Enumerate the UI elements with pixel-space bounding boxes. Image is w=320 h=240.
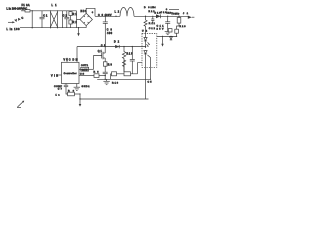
node labels above diode D10 bbox=[144, 7, 167, 14]
svg-text:VIN: VIN bbox=[51, 74, 58, 77]
ground symbol primary bbox=[103, 79, 109, 84]
wire feedback top bbox=[157, 36, 177, 37]
wire opto emitter to rail bbox=[145, 67, 147, 99]
svg-text:R9: R9 bbox=[108, 65, 113, 67]
zener D4 bbox=[170, 37, 173, 40]
node COMP label bbox=[54, 86, 63, 96]
svg-text:COMP: COMP bbox=[54, 86, 63, 88]
node N input label bbox=[7, 28, 21, 31]
capacitor C6 bbox=[130, 46, 135, 74]
resistor R18 bbox=[168, 29, 172, 32]
svg-text:400: 400 bbox=[107, 33, 113, 35]
wire bus after inductor bbox=[134, 16, 160, 17]
node U2 label bbox=[142, 30, 148, 32]
inductor L1 common-mode choke bbox=[50, 4, 58, 28]
fuse F1 bbox=[25, 10, 30, 12]
wire main bus bbox=[95, 15, 120, 17]
svg-text:R13: R13 bbox=[180, 26, 187, 28]
svg-text:L in 100: L in 100 bbox=[7, 28, 21, 31]
svg-text:L2: L2 bbox=[115, 11, 120, 14]
svg-text:J1: J1 bbox=[183, 13, 189, 15]
wire vertical junction bbox=[61, 11, 63, 28]
svg-text:C2: C2 bbox=[63, 16, 68, 18]
node VAC diagonal label bbox=[15, 16, 24, 22]
svg-text:C1: C1 bbox=[43, 15, 48, 17]
svg-text:C11: C11 bbox=[157, 26, 165, 28]
wire COMP pin bbox=[58, 84, 66, 91]
wire vertical before bridge bbox=[76, 11, 78, 28]
svg-text:L1: L1 bbox=[52, 4, 58, 7]
node C11 labels bbox=[157, 26, 165, 31]
ground GND pin controller bbox=[74, 84, 91, 91]
svg-text:R11: R11 bbox=[149, 23, 156, 25]
node VIN label bbox=[51, 74, 62, 77]
node Vout label bbox=[166, 8, 189, 15]
AC input terminal arrow bbox=[8, 21, 15, 23]
MOSFET Q1 bbox=[94, 47, 106, 70]
wire bottom rail bbox=[20, 27, 86, 29]
wire primary ground rail bbox=[97, 79, 150, 80]
diode D2 bbox=[114, 41, 120, 48]
node +400V label bbox=[92, 12, 94, 14]
resistor R9 sense bbox=[103, 62, 112, 72]
svg-text:DM: DM bbox=[73, 60, 78, 62]
node C9 400V label bbox=[98, 14, 112, 17]
output terminal arrow bbox=[188, 16, 195, 19]
wire parallel drop bbox=[151, 16, 154, 23]
capacitor C7 comp bbox=[64, 85, 68, 94]
node C5 label bbox=[101, 45, 106, 47]
svg-text:C9: C9 bbox=[107, 30, 113, 32]
fuse F1 label bbox=[22, 4, 30, 7]
controller U1 bbox=[62, 62, 80, 83]
svg-text:L in 100-240VAC: L in 100-240VAC bbox=[7, 7, 28, 10]
node OUT label box bbox=[81, 65, 89, 71]
ground symbol output bbox=[165, 32, 171, 35]
capacitor C2 bbox=[63, 11, 70, 28]
wire output bbox=[160, 16, 188, 17]
wire OUT pin bbox=[79, 68, 94, 70]
wire feedback mid bbox=[111, 63, 143, 80]
resistor R12 zigzag bbox=[123, 60, 126, 72]
LED opto bbox=[144, 34, 147, 49]
resistor R8 bbox=[68, 90, 80, 95]
resistor R7 bbox=[112, 72, 117, 76]
phototransistor opto bbox=[144, 51, 151, 68]
svg-text:Controller: Controller bbox=[64, 72, 77, 75]
wire comp to gnd rail bbox=[79, 93, 80, 99]
svg-text:Vout+: Vout+ bbox=[171, 12, 180, 15]
wire bridge bottom to rail bbox=[85, 26, 87, 28]
annotation arrow bottom left bbox=[17, 101, 24, 108]
optocoupler U2 dashed box bbox=[142, 34, 157, 68]
svg-text:1N4: 1N4 bbox=[151, 7, 157, 9]
svg-text:C9: C9 bbox=[98, 14, 104, 17]
svg-text:OUT1: OUT1 bbox=[81, 65, 89, 67]
svg-text:GATE: GATE bbox=[82, 68, 88, 71]
wire VCC rail bbox=[77, 46, 146, 62]
svg-text:U2: U2 bbox=[142, 30, 148, 32]
wire snubber drop bbox=[145, 16, 147, 20]
wire sense top bbox=[169, 9, 179, 11]
resistor R15 zigzag bbox=[122, 46, 133, 72]
node L input label bbox=[7, 7, 28, 10]
node R16 label bbox=[112, 83, 119, 85]
resistor R1 bbox=[69, 11, 77, 20]
ground arrow bottom bbox=[79, 99, 82, 107]
svg-text:F1 3A: F1 3A bbox=[22, 4, 30, 7]
resistor R6 bbox=[94, 72, 106, 78]
svg-text:CS: CS bbox=[80, 74, 85, 76]
wire CS pin bbox=[79, 74, 94, 76]
svg-text:R16: R16 bbox=[112, 83, 119, 85]
capacitor CS filter bbox=[103, 72, 108, 79]
wire top rail bbox=[21, 10, 77, 12]
svg-text:D2: D2 bbox=[114, 41, 120, 43]
wire opto collector to rail bbox=[150, 67, 151, 80]
svg-text:C10: C10 bbox=[166, 13, 171, 15]
wire bottom ground rail bbox=[79, 98, 148, 99]
wire to bridge left vertex bbox=[77, 19, 81, 21]
capacitor C1 bbox=[40, 11, 49, 28]
svg-text:GND1: GND1 bbox=[82, 86, 91, 88]
resistor R17 bbox=[175, 29, 179, 36]
wire pin DM stub bbox=[66, 58, 67, 63]
opto light arrows bbox=[146, 42, 150, 46]
node label below opto bbox=[148, 81, 153, 83]
svg-text:R6: R6 bbox=[94, 72, 100, 74]
resistor R13 bbox=[177, 16, 187, 29]
svg-text:Q1: Q1 bbox=[98, 51, 103, 53]
diode D10 bbox=[156, 14, 161, 18]
svg-text:C12: C12 bbox=[149, 28, 156, 30]
node VCC DM labels bbox=[64, 60, 78, 62]
inductor L2 label bbox=[115, 11, 120, 14]
ground arrow primary bbox=[77, 27, 80, 36]
resistor R14 bbox=[124, 72, 131, 76]
node bus junction dot bbox=[115, 16, 116, 17]
capacitor C9 bulk bbox=[103, 16, 113, 47]
wire vertical junction bbox=[32, 10, 33, 28]
inductor L2 bbox=[120, 7, 134, 16]
capacitor C11 output bbox=[165, 16, 170, 31]
svg-text:25V: 25V bbox=[157, 29, 165, 31]
resistor R11 zigzag bbox=[144, 20, 156, 34]
ground arrow feedback bbox=[161, 36, 163, 47]
bridge rectifier BD1 bbox=[80, 10, 92, 26]
resistor R2 bbox=[69, 20, 77, 28]
wire bridge top to bus bbox=[86, 8, 95, 16]
